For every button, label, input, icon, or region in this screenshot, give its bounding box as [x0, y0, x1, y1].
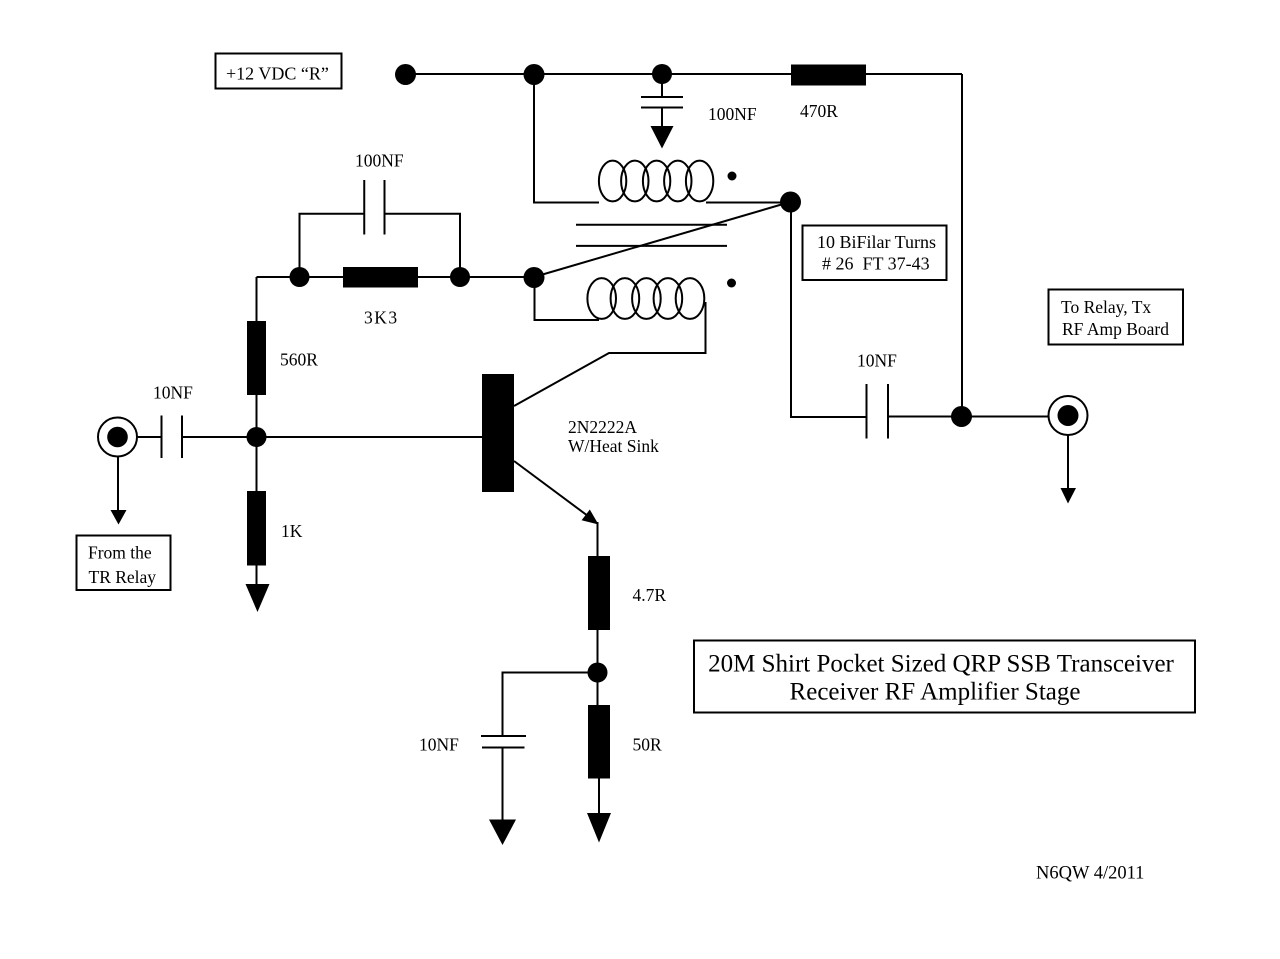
node rail junction to transformer primary — [524, 64, 545, 85]
node bifilar tap junction — [780, 192, 801, 213]
svg-text:10 BiFilar Turns: 10 BiFilar Turns — [817, 232, 936, 252]
svg-text:10NF: 10NF — [857, 351, 897, 371]
arrow to TR relay label — [111, 510, 127, 525]
ground below 1K — [246, 584, 270, 612]
wire collector tap drop — [791, 202, 866, 417]
svg-text:N6QW 4/2011: N6QW 4/2011 — [1036, 864, 1144, 884]
svg-text:2N2222A: 2N2222A — [568, 417, 637, 437]
ground below bypass cap — [489, 820, 516, 846]
svg-text:# 26 FT 37-43: # 26 FT 37-43 — [822, 253, 930, 273]
wire bypass branch — [503, 673, 598, 737]
capacitor 100NF rail bypass — [641, 81, 683, 127]
svg-text:Receiver RF Amplifier Stage: Receiver RF Amplifier Stage — [790, 679, 1081, 706]
capacitor 10NF input — [162, 416, 183, 459]
resistor 50R — [588, 705, 610, 779]
svg-text:10NF: 10NF — [153, 383, 193, 403]
wire emitter diagonal — [514, 461, 592, 519]
wire +12V top rail — [405, 73, 962, 75]
svg-text:W/Heat Sink: W/Heat Sink — [568, 436, 659, 456]
svg-text:1K: 1K — [281, 521, 303, 541]
ground below rail bypass cap — [651, 126, 674, 149]
capacitor 100NF feedback — [300, 180, 461, 277]
arrow to relay label — [1061, 488, 1077, 504]
svg-text:To Relay, Tx: To Relay, Tx — [1061, 297, 1151, 317]
title box — [694, 641, 1195, 713]
node emitter junction — [588, 663, 608, 683]
resistor 4.7R — [588, 556, 610, 630]
node feedback right — [450, 267, 470, 287]
node rail junction to bypass cap — [652, 64, 672, 84]
resistor 470R — [791, 65, 866, 86]
wire transformer primary left lead — [534, 76, 599, 203]
svg-text:50R: 50R — [633, 735, 663, 755]
wire base — [182, 436, 482, 438]
transformer T1 primary winding — [599, 161, 713, 202]
node output junction — [951, 406, 972, 427]
label 2N2222A W/Heat Sink — [568, 417, 659, 456]
wire transformer secondary right lead to collector — [514, 302, 706, 406]
transistor Q1 2N2222A body — [482, 374, 514, 492]
wire output connector lead — [1067, 435, 1069, 489]
svg-text:+12 VDC “R”: +12 VDC “R” — [226, 64, 329, 84]
phasing dot secondary — [727, 279, 736, 288]
svg-text:100NF: 100NF — [708, 104, 757, 124]
resistor 3K3 — [343, 267, 418, 288]
transformer core — [576, 225, 727, 246]
label From the TR Relay — [77, 536, 171, 591]
connector J2 output — [1049, 396, 1088, 435]
svg-text:TR Relay: TR Relay — [89, 567, 157, 587]
node supply entry — [395, 64, 416, 85]
transformer T1 secondary winding — [587, 278, 704, 319]
wire output — [888, 416, 1049, 418]
resistor 1K — [247, 491, 266, 566]
capacitor 10NF bypass — [481, 736, 526, 820]
svg-text:560R: 560R — [280, 350, 318, 370]
svg-text:3K3: 3K3 — [364, 308, 399, 328]
emitter arrowhead — [582, 510, 599, 525]
node feedback left — [290, 267, 310, 287]
wire bifilar diagonal connection — [534, 202, 790, 277]
wire base bias column — [256, 277, 258, 585]
wire transformer secondary left lead — [535, 278, 600, 321]
svg-text:From the: From the — [88, 543, 152, 563]
node base junction — [247, 427, 267, 447]
label 10 BiFilar Turns box — [803, 226, 947, 281]
ground below 50R — [587, 813, 611, 843]
node secondary-left junction — [524, 267, 545, 288]
label +12 VDC "R" — [216, 54, 342, 89]
wire emitter drop — [597, 522, 599, 556]
capacitor 10NF output — [867, 384, 889, 439]
svg-text:20M Shirt Pocket Sized QRP SSB: 20M Shirt Pocket Sized QRP SSB Transceiv… — [708, 651, 1174, 678]
svg-text:4.7R: 4.7R — [633, 585, 667, 605]
phasing dot primary — [728, 172, 737, 181]
connector J1 input — [98, 418, 137, 457]
wire connector to input cap — [137, 436, 162, 438]
label To Relay, Tx RF Amp Board — [1049, 290, 1184, 345]
svg-text:RF Amp Board: RF Amp Board — [1062, 319, 1169, 339]
wire 50R ground lead — [598, 779, 600, 815]
resistor 560R — [247, 321, 266, 395]
wire rail right corner drop to output — [961, 74, 963, 417]
wire emitter resistor chain — [597, 630, 599, 705]
svg-text:470R: 470R — [800, 101, 838, 121]
wire feedback net — [257, 276, 535, 278]
svg-text:10NF: 10NF — [419, 735, 459, 755]
svg-text:100NF: 100NF — [355, 151, 404, 171]
wire transformer primary right lead — [706, 202, 785, 204]
wire connector shield lead — [117, 457, 119, 512]
